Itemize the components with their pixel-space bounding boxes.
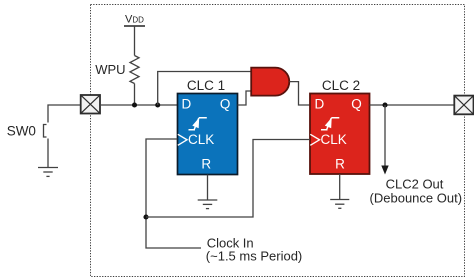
resistor WPU xyxy=(130,56,139,84)
switch SW0 xyxy=(44,125,49,168)
svg-text:CLK: CLK xyxy=(188,132,214,147)
node junction output xyxy=(382,102,387,107)
CLC2 flip-flop block xyxy=(310,94,370,175)
CLC1 flip-flop block xyxy=(178,94,238,175)
svg-text:(~1.5 ms Period): (~1.5 ms Period) xyxy=(206,249,302,264)
ground (CLC2 R) xyxy=(330,174,349,208)
wire output arrow xyxy=(384,105,386,166)
svg-text:D: D xyxy=(182,96,192,111)
wire Q2 to pin xyxy=(370,104,455,106)
svg-text:CLC 2: CLC 2 xyxy=(322,78,360,93)
svg-text:WPU: WPU xyxy=(95,62,125,77)
ground (SW0) xyxy=(38,168,58,177)
wire resistor to rail xyxy=(134,84,136,106)
wire CLK1 input xyxy=(146,139,201,248)
wire clock to CLK2 xyxy=(146,140,310,218)
svg-text:SW0: SW0 xyxy=(7,123,36,138)
clock chevron (CLC1) xyxy=(178,134,187,145)
wire feedback to AND top input xyxy=(158,72,252,106)
AND gate xyxy=(251,68,289,96)
svg-text:CLK: CLK xyxy=(321,132,347,147)
ground (CLC1 R) xyxy=(198,175,218,209)
edge-trigger icon (CLC2) xyxy=(321,118,339,130)
device boundary (dashed) xyxy=(91,5,465,277)
svg-text:(Debounce Out): (Debounce Out) xyxy=(370,190,463,205)
node junction feedback xyxy=(155,102,160,107)
svg-text:R: R xyxy=(201,156,211,171)
edge-trigger icon (CLC1) xyxy=(189,118,207,130)
pin PAD2 (crossed box, right) xyxy=(454,96,473,115)
supply VDD bar xyxy=(124,25,145,27)
wire Q1 to AND bottom input xyxy=(238,91,252,105)
svg-text:VDD: VDD xyxy=(125,13,144,25)
svg-text:R: R xyxy=(335,156,345,171)
clock chevron (CLC2) xyxy=(310,134,319,145)
pin PAD1 (crossed box, left) xyxy=(81,95,100,114)
wire AND output to D2 xyxy=(289,82,310,105)
svg-text:CLC 1: CLC 1 xyxy=(187,78,225,93)
wire pin to D input (main rail) xyxy=(100,104,178,106)
node junction at WPU xyxy=(132,102,137,107)
svg-text:Q: Q xyxy=(220,96,231,111)
node junction clock xyxy=(143,214,148,219)
wire SW0 to pin xyxy=(48,105,81,123)
wire VDD to resistor xyxy=(134,26,136,56)
svg-text:D: D xyxy=(315,96,325,111)
svg-text:Q: Q xyxy=(351,96,362,111)
